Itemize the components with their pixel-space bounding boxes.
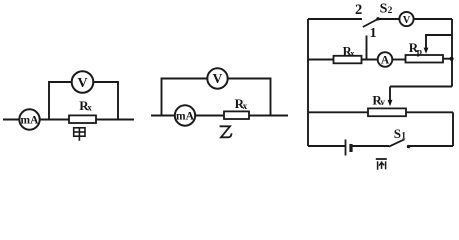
wire Rv row left (丙): [308, 111, 368, 113]
rheostat Rv (丙): [368, 108, 406, 116]
svg-text:1: 1: [370, 26, 377, 41]
svg-text:V: V: [77, 76, 87, 91]
junction dot Rp right: [450, 57, 454, 61]
switch S1 contact dot: [407, 145, 410, 148]
voltmeter V (乙): [207, 68, 227, 88]
wire S1 to right vertical (丙): [409, 145, 454, 147]
label 甲: [74, 128, 85, 141]
svg-text:mA: mA: [176, 110, 195, 122]
label Rx (丙): [343, 45, 356, 59]
wire mA to Rx (乙): [195, 115, 224, 117]
wire Rx to right end (乙): [249, 115, 288, 117]
label S1: [394, 126, 407, 141]
svg-text:S: S: [380, 2, 388, 17]
ammeter A (丙): [378, 52, 393, 67]
wire voltmeter branch right (甲): [93, 82, 118, 120]
label 乙: [220, 126, 232, 137]
wire voltmeter branch left (甲): [49, 82, 72, 120]
wire Rv row right (丙): [406, 111, 453, 113]
voltmeter V (甲): [72, 71, 94, 93]
wire right vertical lower (丙): [452, 112, 454, 146]
svg-text:x: x: [350, 48, 355, 58]
label Rp (丙): [409, 40, 422, 57]
label 丙: [376, 159, 387, 170]
svg-text:2: 2: [355, 2, 362, 18]
svg-text:V: V: [213, 71, 223, 86]
switch S1 blade: [389, 139, 405, 146]
wire left lead (甲): [3, 119, 19, 121]
contact 1 stub wire: [366, 36, 368, 60]
svg-text:v: v: [380, 97, 385, 107]
wire left lead (乙): [151, 115, 175, 117]
wire voltmeter branch left (乙): [162, 79, 208, 116]
svg-text:S: S: [394, 126, 401, 141]
voltmeter V (丙): [399, 12, 413, 26]
svg-text:x: x: [243, 101, 248, 111]
wire Rx to right end (甲): [96, 119, 134, 121]
svg-text:1: 1: [401, 132, 406, 142]
wire Rx to ammeter (丙): [362, 59, 378, 61]
milliammeter mA (乙): [175, 105, 195, 125]
label Rv (丙): [372, 93, 385, 108]
wiper of Rv (arrow): [388, 87, 393, 107]
battery cell (丙): [346, 140, 352, 156]
wire middle row left (丙): [308, 59, 334, 61]
wire voltmeter branch right (乙): [228, 79, 271, 116]
svg-text:V: V: [403, 15, 411, 26]
wire voltmeter to right vertical (丙): [414, 18, 452, 20]
resistor Rx (甲): [69, 115, 96, 123]
wire ammeter to Rp (丙): [392, 59, 405, 61]
switch S2 pivot dot: [376, 17, 379, 20]
wire left vertical (丙): [307, 19, 309, 146]
wire top left to switch S2 (丙): [308, 18, 362, 20]
milliammeter mA (甲): [19, 109, 39, 129]
wire S2 to voltmeter (丙): [378, 18, 399, 20]
wire right vertical upper (丙): [451, 19, 453, 87]
svg-text:p: p: [417, 48, 422, 58]
wire mA to Rx (甲): [40, 119, 69, 121]
label S2: [380, 2, 393, 17]
svg-text:2: 2: [388, 6, 393, 16]
resistor Rx (乙): [224, 111, 249, 119]
wire Rp to right vertical (丙): [443, 58, 452, 60]
resistor Rp (丙): [406, 55, 444, 63]
wiper of Rp (arrow): [424, 35, 452, 54]
wire Rv wiper connection (丙): [390, 86, 452, 88]
resistor Rx (丙): [334, 56, 362, 64]
svg-text:x: x: [87, 103, 92, 113]
wire bottom left to battery (丙): [308, 145, 346, 147]
svg-text:A: A: [381, 55, 390, 67]
label Rx (甲): [79, 98, 92, 113]
label Rx (乙): [235, 96, 248, 111]
switch S2 blade: [363, 19, 378, 27]
wire battery to switch S1 (丙): [351, 145, 389, 147]
svg-text:mA: mA: [21, 114, 40, 126]
